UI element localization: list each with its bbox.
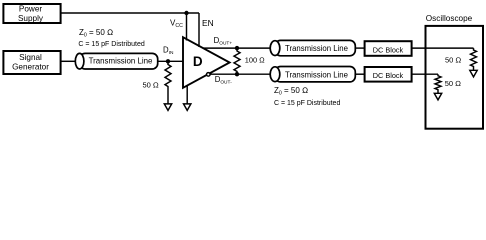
resistor 50 ohm scope lower xyxy=(435,74,441,93)
wire: DOUT- rail to lower transmission line xyxy=(210,73,271,75)
ground (scope lower) xyxy=(434,93,441,100)
svg-text:Supply: Supply xyxy=(18,14,44,23)
ground (scope upper) xyxy=(470,70,477,77)
svg-text:50 Ω: 50 Ω xyxy=(143,80,159,89)
svg-text:Transmission Line: Transmission Line xyxy=(285,44,348,53)
transmission line (input coax) xyxy=(75,53,157,69)
svg-text:C = 15 pF Distributed: C = 15 pF Distributed xyxy=(78,41,144,48)
junction DOUT- / 100 ohm xyxy=(235,72,239,76)
driver U1 triangle xyxy=(183,37,230,88)
wire: DOUT+ rail to upper transmission line xyxy=(203,47,271,49)
transmission line (lower output coax) xyxy=(270,67,355,82)
svg-text:Transmission Line: Transmission Line xyxy=(89,56,153,65)
wire: signal generator to transmission line xyxy=(61,60,76,62)
svg-text:100 Ω: 100 Ω xyxy=(245,55,265,64)
svg-text:Power: Power xyxy=(19,5,42,14)
pin EN wire xyxy=(198,13,200,47)
wire: lower DC block to scope input xyxy=(412,73,438,75)
ground (input termination) xyxy=(164,104,171,111)
svg-text:Generator: Generator xyxy=(12,62,49,71)
wire: lower coax to DC block xyxy=(355,73,365,75)
wire: power supply to EN pin xyxy=(61,12,199,14)
power supply box xyxy=(3,4,60,23)
oscilloscope box xyxy=(426,26,484,129)
resistor 100 ohm termination xyxy=(234,48,240,74)
svg-text:DC Block: DC Block xyxy=(373,71,404,80)
junction input termination xyxy=(166,59,170,63)
junction VCC xyxy=(184,11,188,15)
svg-text:D: D xyxy=(193,54,203,69)
svg-text:C = 15 pF Distributed: C = 15 pF Distributed xyxy=(274,100,340,107)
svg-text:50 Ω: 50 Ω xyxy=(445,79,461,88)
svg-text:DC Block: DC Block xyxy=(373,45,404,54)
inversion bubble on DOUT- xyxy=(207,73,211,77)
wire: upper DC block to scope input xyxy=(412,47,474,49)
svg-text:50 Ω: 50 Ω xyxy=(445,55,461,64)
svg-text:Signal: Signal xyxy=(19,53,42,62)
svg-text:Transmission Line: Transmission Line xyxy=(285,70,348,79)
resistor 50 ohm input termination xyxy=(165,61,171,104)
wire: transmission line to driver input xyxy=(158,60,184,62)
DC block (upper) xyxy=(365,41,412,56)
pin GND wire (driver) xyxy=(186,85,188,104)
signal generator box xyxy=(3,51,60,74)
svg-text:Oscilloscope: Oscilloscope xyxy=(426,14,473,23)
junction DOUT+ / 100 ohm xyxy=(235,46,239,50)
resistor 50 ohm scope upper xyxy=(471,48,477,70)
ground (driver) xyxy=(184,104,191,111)
DC block (lower) xyxy=(365,67,412,82)
transmission line (upper output coax) xyxy=(270,40,355,55)
pin VCC wire xyxy=(186,13,188,41)
svg-text:EN: EN xyxy=(202,18,214,28)
wire: upper coax to DC block xyxy=(355,47,365,49)
